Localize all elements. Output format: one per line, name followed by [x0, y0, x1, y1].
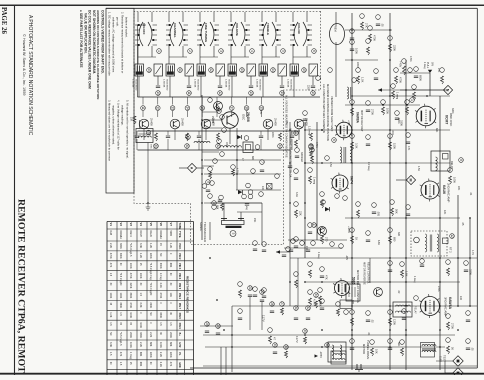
resistor R126 [321, 200, 324, 208]
svg-text:COIL: COIL [153, 144, 155, 150]
svg-text:NC: NC [149, 312, 152, 316]
resistor R138 1.5K [401, 270, 404, 278]
wire rx main vertical v1 [304, 122, 306, 258]
part ref R6b [309, 144, 314, 149]
switch S4 VOLUME [228, 12, 250, 46]
wire c30 lead [249, 297, 251, 330]
part ref R63 [325, 156, 330, 161]
resistor R127 22K [295, 210, 298, 218]
capacitor C1a [156, 85, 160, 87]
svg-text:470K: 470K [129, 302, 132, 308]
resistor R141 4.7K [309, 298, 312, 306]
svg-text:11: 11 [141, 106, 145, 110]
resistor R110 470K [395, 76, 398, 84]
svg-text:330K: 330K [119, 243, 122, 249]
diamond jack J1 [453, 356, 463, 366]
svg-text:voltage readings.: voltage readings. [121, 105, 125, 126]
capacitor C81 [262, 249, 266, 251]
svg-text:10K: 10K [169, 293, 172, 298]
svg-text:12: 12 [156, 106, 160, 110]
svg-text:13: 13 [171, 106, 175, 110]
svg-text:220V: 220V [307, 85, 310, 91]
part ref C22 [260, 160, 265, 165]
svg-text:6AW8A: 6AW8A [119, 231, 122, 240]
part ref R71 [391, 84, 396, 89]
svg-text:680K: 680K [419, 75, 423, 81]
svg-text:4.7K: 4.7K [471, 250, 474, 255]
svg-text:220K: 220K [149, 253, 152, 259]
wire rx horizontal h8 [232, 305, 477, 307]
resistor R139 [447, 268, 450, 276]
svg-text:12K: 12K [443, 210, 446, 215]
resistor R25 68K [221, 204, 224, 211]
svg-text:2.2K: 2.2K [159, 362, 162, 367]
capacitor C24 [206, 189, 210, 191]
box X small [267, 184, 273, 190]
wire rx horizontal h1 [345, 29, 392, 31]
part ref C40 [294, 306, 299, 311]
svg-text:270K: 270K [437, 286, 440, 292]
wire rx main vertical v8 [457, 195, 459, 306]
relay K3 [197, 64, 206, 76]
svg-text:270K: 270K [371, 109, 375, 115]
capacitor C103 [350, 37, 354, 39]
svg-text:470K: 470K [109, 253, 112, 259]
capacitor C63 [295, 155, 299, 157]
transformer small left [347, 87, 352, 99]
part ref R70 [402, 59, 407, 64]
svg-text:22K: 22K [457, 186, 460, 191]
resistor R122 56K [391, 208, 394, 216]
part ref C2a [187, 91, 192, 96]
resistor R129 270 [321, 236, 324, 244]
svg-text:220K: 220K [129, 332, 132, 338]
relay K1 [135, 64, 144, 76]
svg-text:100K: 100K [119, 293, 122, 299]
capacitor C2b [166, 135, 170, 137]
svg-text:.005: .005 [377, 211, 381, 217]
wire col 2 down [198, 131, 200, 135]
svg-text:5965: 5965 [169, 231, 172, 237]
svg-text:.05: .05 [381, 23, 385, 27]
part ref stage 8 [259, 106, 264, 111]
resistor R104 470K [369, 34, 372, 42]
wire jacks [436, 360, 453, 362]
svg-text:100K: 100K [159, 342, 162, 348]
svg-text:HTR: HTR [178, 343, 181, 348]
part ref T3 [352, 78, 357, 83]
svg-text:1.5: 1.5 [109, 352, 112, 356]
transistor Q7 column [214, 102, 223, 111]
svg-text:5: 5 [281, 50, 285, 52]
capacitor C111 680K [414, 75, 418, 77]
tube V3 6AF4 [332, 175, 348, 191]
svg-text:10K: 10K [261, 186, 264, 191]
svg-text:68K: 68K [139, 362, 142, 367]
svg-text:PIN 6: PIN 6 [178, 293, 181, 300]
svg-text:NC: NC [109, 332, 112, 336]
resistor R155 [239, 290, 242, 298]
wire row y105 [345, 104, 420, 106]
svg-text:27K: 27K [437, 68, 440, 73]
svg-text:OSC: OSC [242, 114, 246, 120]
svg-text:6: 6 [312, 50, 316, 52]
relay contact box K4b [247, 64, 256, 76]
part ref oval a [316, 76, 321, 81]
relay K2 [166, 64, 175, 76]
part ref C82 [253, 287, 258, 292]
svg-text:34: 34 [314, 293, 318, 297]
svg-text:4.7K: 4.7K [236, 168, 239, 173]
svg-text:3RD RMC AMP: 3RD RMC AMP [444, 297, 448, 317]
svg-text:6.8K: 6.8K [377, 240, 380, 245]
wire col 5 down [291, 131, 293, 135]
svg-text:117V: 117V [262, 315, 266, 322]
svg-text:1.2K: 1.2K [149, 243, 152, 248]
svg-text:47K: 47K [407, 146, 410, 151]
wire rx main vertical v6 [429, 73, 431, 96]
resistor R145 120K [389, 318, 392, 326]
svg-text:32: 32 [306, 306, 310, 310]
svg-text:1: 1 [410, 99, 414, 101]
svg-text:9: 9 [206, 181, 210, 183]
part ref stage 2 [170, 106, 175, 111]
svg-text:8: 8 [459, 159, 463, 161]
svg-text:15: 15 [311, 91, 315, 95]
svg-text:.02: .02 [371, 319, 375, 323]
resistor R62b [310, 151, 313, 158]
svg-text:6AF4: 6AF4 [129, 231, 132, 238]
wire stage ref 3 [186, 97, 188, 105]
svg-text:2.2K: 2.2K [159, 283, 162, 288]
resistor R54 [304, 337, 307, 344]
wire rx main vertical v7 [439, 96, 441, 370]
svg-text:3: 3 [219, 50, 223, 52]
svg-text:● SEE PARTS LIST FOR ALTERNATE: ● SEE PARTS LIST FOR ALTERNATE [79, 10, 83, 68]
svg-text:10K: 10K [130, 117, 133, 122]
svg-text:220K: 220K [169, 332, 172, 338]
svg-text:22K: 22K [293, 130, 296, 135]
svg-text:820: 820 [351, 300, 354, 305]
capacitor C53b [216, 332, 220, 334]
part ref K9 [414, 296, 419, 301]
svg-text:120K: 120K [397, 118, 400, 124]
wire stage ref 2 [172, 97, 174, 105]
svg-text:6AU6: 6AU6 [442, 185, 446, 194]
part ref R5b [278, 144, 283, 149]
capacitor C22 [260, 169, 264, 171]
svg-text:100K: 100K [129, 263, 132, 269]
wire x370 v [369, 258, 371, 283]
wire switch S1 down legs [137, 46, 139, 64]
capacitor C64 [289, 249, 293, 251]
svg-text:1 meg: 1 meg [149, 273, 152, 281]
svg-text:2.2K: 2.2K [109, 243, 112, 248]
svg-text:REMOTE RECEIVER CTP6A, REMOT: REMOTE RECEIVER CTP6A, REMOT [16, 199, 27, 373]
part ref C6a [311, 91, 316, 96]
svg-text:1.5: 1.5 [119, 362, 122, 366]
capacitor C28 [282, 254, 286, 256]
wire transducer feed left [223, 203, 225, 219]
svg-text:V3: V3 [129, 223, 133, 227]
wire Q2 emitter [174, 129, 176, 140]
capacitor C6a [311, 85, 315, 87]
svg-text:30: 30 [273, 343, 277, 347]
part ref col d [217, 139, 222, 144]
capacitor C130 [294, 245, 298, 247]
svg-text:1.5: 1.5 [109, 322, 112, 326]
svg-text:1 meg: 1 meg [159, 273, 162, 281]
wire relay K2 down [169, 76, 171, 97]
svg-text:470K: 470K [399, 77, 403, 83]
svg-text:13: 13 [249, 91, 253, 95]
wire stage ref 7 [246, 97, 248, 105]
svg-text:PIN 3: PIN 3 [178, 263, 181, 270]
capacitor C30 [248, 294, 252, 296]
part ref C63 [295, 148, 300, 153]
svg-text:PIN 7: PIN 7 [178, 303, 181, 310]
svg-text:1 meg: 1 meg [129, 352, 132, 360]
wire rx horizontal h9 [203, 365, 477, 367]
svg-text:COLOR: COLOR [297, 23, 301, 35]
resistor R153 56 [447, 346, 450, 354]
svg-text:220K: 220K [149, 352, 152, 358]
capacitor C105 100K [350, 48, 354, 50]
svg-text:A PHOTOFACT STANDARD NOTATION: A PHOTOFACT STANDARD NOTATION SCHEMATIC [27, 15, 33, 136]
relay contact box K3b [216, 64, 225, 76]
resistor R101 27K [361, 22, 364, 30]
svg-text:120K: 120K [393, 319, 397, 325]
wire relay K1 down [138, 76, 140, 97]
transistor Q10 [318, 227, 327, 236]
svg-text:2ND RMC AMP: 2ND RMC AMP [447, 183, 451, 203]
svg-text:V6: V6 [159, 223, 163, 227]
coil box relay K9 [346, 284, 360, 301]
part ref C61 [310, 148, 315, 153]
svg-text:GRD: GRD [178, 362, 181, 368]
svg-text:100K: 100K [355, 48, 359, 54]
relay contact box K1b [154, 64, 163, 76]
svg-text:1 meg: 1 meg [396, 92, 400, 100]
svg-text:10: 10 [156, 91, 160, 95]
wire osc emitter down [229, 128, 231, 144]
svg-text:470K: 470K [129, 273, 132, 279]
capacitor C65 [306, 249, 310, 251]
resistor R60 [295, 140, 298, 148]
svg-text:28: 28 [205, 322, 209, 326]
resistor R2b [186, 133, 189, 141]
svg-text:MOTOR REVERSE: MOTOR REVERSE [363, 262, 367, 285]
wire col 4 down [260, 131, 262, 135]
svg-text:1.5: 1.5 [159, 322, 162, 326]
part ref R2b [185, 144, 190, 149]
part ref C5a [280, 91, 285, 96]
wire rx main vertical v3 [351, 13, 353, 370]
svg-text:68K: 68K [435, 128, 438, 133]
svg-text:270K: 270K [451, 323, 455, 329]
resistor R147 270K [447, 322, 450, 330]
part ref col i [202, 184, 207, 189]
wire rx main vertical v4 [389, 13, 391, 370]
wire stage ref 1 [157, 97, 159, 105]
svg-text:TUNING DRIVE: TUNING DRIVE [366, 340, 370, 359]
svg-text:6U8: 6U8 [109, 231, 112, 236]
page edge rule left [14, 6, 16, 375]
tube V2 6AU6 [421, 181, 439, 199]
svg-text:100K: 100K [139, 273, 142, 279]
part ref R60 [294, 131, 299, 136]
tube V1 6CM7 [416, 106, 436, 126]
part ref L2b [255, 145, 260, 150]
notes box [106, 8, 134, 193]
svg-text:N: N [446, 89, 450, 92]
switch S3 FINE TUNING [197, 12, 219, 46]
svg-text:PIN 1: PIN 1 [178, 244, 181, 251]
wire rx horizontal h7 [290, 257, 477, 259]
wire y248 row [284, 247, 342, 249]
svg-text:4. Line Voltage maintained at: 4. Line Voltage maintained at 117 volts … [117, 100, 121, 150]
svg-text:RESISTANCE READINGS: RESISTANCE READINGS [185, 276, 189, 313]
wire Q5 emitter [267, 129, 269, 140]
svg-text:100K: 100K [386, 108, 390, 114]
part ref switch S4 [250, 49, 255, 54]
svg-text:5: 5 [231, 233, 235, 235]
svg-text:OSC: OSC [225, 142, 228, 147]
wire switch S4 down legs [230, 46, 232, 64]
coil L2 small [194, 141, 210, 143]
svg-text:3: 3 [146, 132, 150, 134]
relay K5 [259, 64, 268, 76]
part ref C52 [205, 322, 210, 327]
svg-text:470K: 470K [409, 56, 412, 62]
wire rx vertical v2c [297, 258, 299, 306]
svg-text:14: 14 [185, 106, 189, 110]
svg-text:DC COIL RESISTANCE VALUES UNDE: DC COIL RESISTANCE VALUES UNDER ONE OHM [88, 10, 92, 89]
svg-text:2N408: 2N408 [274, 118, 278, 126]
transformer with core T2 [340, 147, 352, 163]
svg-text:1-5401B: 1-5401B [256, 79, 258, 88]
wire bus b3 [220, 347, 222, 375]
svg-text:6CM7: 6CM7 [445, 115, 449, 124]
svg-text:-18V: -18V [345, 255, 348, 260]
part ref C4a [249, 91, 254, 96]
svg-text:SOLENOID: SOLENOID [135, 79, 137, 91]
part ref R52 [284, 345, 289, 350]
wire y212b [237, 211, 262, 213]
svg-text:10K: 10K [375, 349, 379, 354]
svg-text:2N408: 2N408 [211, 116, 214, 124]
part ref row160 a [231, 165, 236, 170]
part ref stage 4 [200, 106, 205, 111]
svg-text:330K: 330K [129, 293, 132, 299]
svg-text:35: 35 [303, 329, 307, 333]
svg-text:A: A [190, 167, 194, 170]
svg-text:40: 40 [147, 68, 151, 72]
part ref C54 [273, 343, 278, 348]
wire stage ref 0 [142, 97, 144, 105]
diode D2 [237, 135, 241, 139]
capacitor C144 .02 [366, 319, 370, 321]
svg-text:470K: 470K [159, 293, 162, 299]
part ref R62 [309, 145, 314, 150]
resistor R117 150K [389, 142, 392, 150]
part ref relay K6 [302, 68, 307, 73]
wire Q1 emitter [143, 129, 145, 140]
part ref switch S5 [281, 49, 286, 54]
svg-text:1-5401B: 1-5401B [287, 79, 289, 88]
svg-text:56K: 56K [395, 209, 399, 214]
wire bus b4 [225, 347, 227, 375]
resistor R150 10K [371, 348, 374, 356]
box below 5965 [340, 300, 352, 309]
capacitor C156 [238, 317, 242, 319]
svg-text:47K: 47K [169, 362, 172, 367]
svg-text:6CM7: 6CM7 [139, 231, 142, 238]
oval part upper right of switch bank [330, 24, 345, 45]
capacitor C123 [406, 213, 410, 215]
resistor R120 [357, 210, 360, 218]
wire col 0 down [136, 131, 138, 135]
svg-text:3.3K: 3.3K [295, 192, 298, 197]
svg-text:31: 31 [185, 144, 189, 148]
wire y240 row [288, 239, 347, 241]
svg-text:ARROWS ON CONTROLS INDICATE CL: ARROWS ON CONTROLS INDICATE CLOCKWISE RO… [96, 10, 100, 100]
svg-text:3300mmf: 3300mmf [300, 152, 303, 162]
svg-text:1 meg: 1 meg [413, 276, 416, 283]
svg-text:41: 41 [178, 68, 182, 72]
svg-text:33: 33 [284, 345, 288, 349]
ac plug P1 [355, 364, 363, 372]
relay contact box K5b [278, 64, 287, 76]
capacitor C83 [262, 295, 266, 297]
part ref col b [220, 115, 225, 120]
resistor R152 [401, 348, 404, 356]
capacitor C4a [249, 85, 253, 87]
part ref R55 [336, 302, 341, 307]
svg-text:.05: .05 [471, 347, 475, 351]
part ref R74 [405, 100, 410, 105]
svg-text:TYPE: TYPE [178, 231, 181, 238]
resistor R134 [309, 270, 312, 278]
svg-text:2N408: 2N408 [181, 118, 185, 126]
part ref C51 [280, 302, 285, 307]
part ref switch S3 [219, 49, 224, 54]
page top rule [0, 4, 484, 6]
svg-text:2N408: 2N408 [150, 118, 154, 126]
svg-text:18: 18 [245, 106, 249, 110]
arrow left y90 [378, 88, 382, 92]
capacitor C52 [205, 330, 209, 332]
part ref col g [208, 167, 213, 172]
resistor R70 [403, 66, 406, 75]
part ref C27b [248, 194, 253, 199]
svg-text:1K: 1K [355, 237, 359, 240]
resistor R53 [315, 301, 318, 308]
capacitor C151 [388, 347, 392, 349]
capacitor C2a [187, 85, 191, 87]
svg-text:330K: 330K [139, 332, 142, 338]
part ref row160 b [251, 169, 256, 174]
diamond jack J2 [453, 368, 463, 378]
part ref switch S2 [188, 49, 193, 54]
capacitor C54 [273, 351, 277, 353]
wire rx main vertical v2 [316, 122, 318, 240]
diode D1 [325, 207, 330, 211]
wire row y174 [204, 173, 281, 175]
wire rx h1b [400, 89, 447, 91]
part ref R1b [154, 144, 159, 149]
svg-text:REM: REM [334, 26, 337, 32]
